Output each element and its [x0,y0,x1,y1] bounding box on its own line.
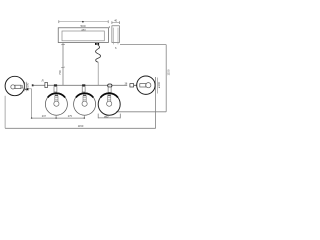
svg-text:700: 700 [58,70,62,75]
svg-text:ø100: ø100 [157,81,161,88]
svg-text:237: 237 [42,115,47,118]
svg-text:40: 40 [114,18,117,22]
svg-text:1150: 1150 [78,124,84,128]
svg-text:ø80: ø80 [104,115,109,118]
svg-text:1150: 1150 [167,69,171,75]
svg-text:ø100: ø100 [25,82,29,89]
svg-text:275: 275 [68,115,73,118]
